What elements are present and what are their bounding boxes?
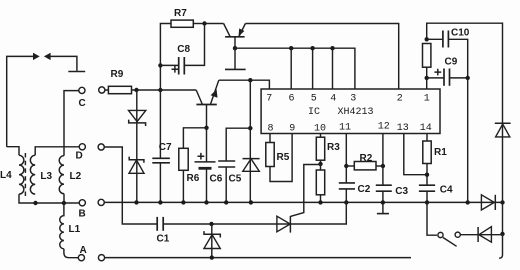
terminal B left [79, 200, 85, 206]
svg-text:C5: C5 [229, 174, 242, 185]
svg-text:L3: L3 [40, 171, 52, 182]
wire C terminal down to L2 [64, 91, 79, 156]
diode D5 on bus [481, 195, 495, 210]
bottom bus [105, 257, 411, 259]
wire L3 top to D line [35, 147, 79, 156]
junction bus C5 [224, 200, 228, 204]
terminal D right [98, 144, 104, 150]
plus sign C6 [198, 153, 205, 160]
svg-text:L1: L1 [69, 224, 81, 235]
svg-text:14: 14 [420, 123, 432, 134]
svg-text:13: 13 [397, 123, 409, 134]
capacitor C2 [339, 183, 355, 203]
wire pin8 stub [269, 134, 271, 143]
zener ZD1 [129, 110, 146, 126]
junction pin4 rail [330, 46, 334, 50]
wire diode D3 column [249, 128, 251, 202]
wire pin13 elbow [404, 134, 427, 175]
wire emitter node to C5 and diode [249, 80, 251, 128]
svg-text:D: D [76, 151, 83, 162]
svg-text:C4: C4 [440, 185, 453, 196]
junction bottom bus zener [210, 255, 214, 259]
wire L1 bottom to A [64, 249, 78, 258]
junction pin5 rail [310, 46, 314, 50]
svg-text:R2: R2 [360, 153, 373, 164]
wire R5 bottom to pin9 [270, 134, 292, 182]
spark gap arrow right [44, 53, 51, 60]
svg-text:C1: C1 [157, 234, 170, 245]
junction bus R6 [181, 200, 185, 204]
electrode bar [225, 68, 246, 70]
diode D6 [478, 227, 491, 243]
resistor R7 [171, 20, 193, 27]
svg-text:6: 6 [289, 94, 295, 105]
junction bus C9 column [466, 200, 470, 204]
junction Q2 collector node [204, 126, 208, 130]
wire Q1 emitter rail to pin2 [245, 24, 398, 90]
resistor R2 [354, 162, 376, 170]
junction R3 bottom [318, 162, 322, 166]
svg-text:C: C [79, 98, 86, 109]
terminal A right [98, 255, 104, 261]
terminal C right [99, 87, 105, 93]
wire C4 node to switch [427, 202, 437, 235]
wire C7 column [159, 90, 161, 158]
junction bus zener [134, 200, 138, 204]
svg-text:L4: L4 [0, 170, 12, 181]
transistor Q1 [205, 24, 246, 49]
resistor R8 [423, 44, 431, 68]
wire R7 to node [193, 23, 204, 25]
svg-text:B: B [79, 209, 86, 220]
wire R6 to bus [182, 170, 184, 202]
junction C9 right [466, 76, 470, 80]
wire C9 right to bus [467, 78, 469, 202]
capacitor C5 [218, 161, 235, 202]
junction C5 node [248, 126, 252, 130]
svg-text:C8: C8 [177, 44, 190, 55]
capacitor C1 [157, 217, 290, 231]
diode D4 right column [495, 119, 511, 202]
wire switch to D6 [460, 234, 502, 236]
inductor L3 [30, 155, 35, 194]
svg-text:R7: R7 [174, 8, 187, 19]
wire pin6 stub [290, 48, 292, 89]
svg-text:C10: C10 [451, 28, 470, 39]
junction Q2 emitter node [248, 78, 252, 82]
svg-text:C6: C6 [210, 174, 223, 185]
wire D terminal to C1 [105, 147, 158, 224]
resistor R1 [423, 141, 431, 164]
svg-text:C2: C2 [358, 184, 371, 195]
bus mid horizontal [105, 201, 503, 203]
svg-text:R9: R9 [111, 69, 124, 80]
wire R7 branch riser [160, 24, 171, 91]
transformer core [24, 153, 26, 196]
wire top-left antenna loop [7, 56, 77, 146]
plus sign C9 [434, 69, 441, 76]
junction L3 bottom [33, 201, 37, 205]
terminal A left [78, 255, 84, 261]
wire zener column [136, 90, 138, 202]
svg-text:R6: R6 [187, 173, 200, 184]
wire pin1 stub [426, 78, 428, 89]
capacitor C6 [195, 162, 216, 203]
zener ZD2 [129, 157, 144, 174]
wire R9 to Q2 base [132, 89, 197, 91]
spark gap arrow left [33, 53, 40, 60]
capacitor C4 [419, 185, 435, 202]
wire right column lower [502, 202, 504, 234]
junction R9-zener [134, 88, 138, 92]
zener ZD3 [204, 224, 220, 258]
wire rail y48 to pin3 [235, 48, 355, 89]
inductor L2 [59, 156, 64, 194]
wire R3 to R4 [320, 160, 322, 170]
svg-text:10: 10 [314, 124, 326, 135]
plus sign C8 [172, 66, 179, 73]
wire pin14 stub [426, 134, 428, 142]
svg-text:R3: R3 [327, 142, 340, 153]
wire collector to R6 [183, 128, 206, 149]
switch K [438, 232, 460, 246]
terminal D left [79, 144, 85, 150]
svg-text:7: 7 [266, 94, 272, 105]
svg-text:3: 3 [350, 94, 356, 105]
wire right column tail [499, 234, 503, 258]
wire R1 to C4 [426, 164, 428, 186]
junction bus C3 [381, 200, 385, 204]
inductor L1 [60, 203, 64, 249]
junction bus C2 [344, 200, 348, 204]
junction right column switch row [500, 232, 504, 236]
wire to L4 top [7, 147, 19, 156]
junction bus R4 [318, 200, 322, 204]
capacitor C8 [160, 24, 204, 75]
junction R2 right [381, 164, 385, 168]
wire pin10 stub [320, 134, 322, 138]
junction Q1 base [233, 46, 237, 50]
wire pin12 stub [382, 134, 384, 186]
svg-text:1: 1 [424, 94, 430, 105]
svg-text:L2: L2 [70, 171, 82, 182]
svg-text:XH4213: XH4213 [338, 107, 374, 118]
junction R7 right [202, 21, 206, 25]
svg-text:R1: R1 [434, 147, 447, 158]
svg-text:A: A [80, 245, 87, 256]
junction bus C4 [425, 200, 429, 204]
ground under C3 [377, 202, 389, 213]
wire R4 to bus [320, 195, 322, 203]
IC U1 XH4213 [261, 89, 440, 134]
junction bus D3 [249, 200, 253, 204]
wire L2 bottom [63, 194, 65, 203]
capacitor C7 [152, 158, 170, 202]
junction C1 zener [209, 222, 213, 226]
terminal B right [98, 199, 104, 205]
junction L2 bottom [62, 201, 66, 205]
junction R2 left [344, 164, 348, 168]
capacitor C9 [427, 69, 468, 86]
wire pin5 stub [312, 48, 314, 89]
wire L4 L3 L2 bottoms to B [19, 194, 79, 203]
svg-text:9: 9 [289, 124, 295, 135]
wire R8 to C9 node [426, 67, 428, 78]
junction R1 bottom [425, 173, 429, 177]
svg-text:IC: IC [308, 107, 320, 118]
diode D3 [243, 159, 260, 172]
capacitor C3 [376, 185, 392, 202]
junction bus right column [500, 200, 504, 204]
junction C9 left [425, 76, 429, 80]
svg-text:12: 12 [378, 122, 390, 133]
svg-text:4: 4 [330, 94, 336, 105]
wire C6 column [206, 128, 208, 162]
svg-text:2: 2 [397, 94, 403, 105]
svg-text:R5: R5 [277, 152, 290, 163]
svg-text:C9: C9 [445, 57, 458, 68]
junction C8 left [158, 63, 162, 67]
wire top right rail [427, 23, 503, 119]
wire Q2 emitter to pin7 [219, 80, 270, 89]
wire R2 leads [346, 165, 354, 167]
junction bus C7 [158, 200, 162, 204]
resistor R3 [316, 137, 324, 160]
junction R9-C7 node [158, 88, 162, 92]
resistor R4 [316, 170, 324, 195]
transistor Q2 [196, 80, 219, 128]
wire pin11 stub [345, 134, 347, 183]
junction bus C6 [204, 200, 208, 204]
junction pin6 rail [289, 46, 293, 50]
junction C10 left [425, 37, 429, 41]
svg-text:8: 8 [268, 124, 274, 135]
inductor L4 [19, 155, 24, 194]
thyristor VS [277, 165, 346, 233]
antenna electrode bar [68, 71, 85, 73]
svg-text:11: 11 [339, 123, 351, 134]
resistor R5 [266, 143, 274, 167]
svg-text:5: 5 [311, 94, 317, 105]
wire electrode stub [234, 48, 236, 69]
wire R9 input [105, 89, 108, 91]
wire pin4 stub [332, 48, 334, 89]
svg-text:C7: C7 [159, 142, 172, 153]
terminal C left [79, 87, 85, 93]
capacitor C10 [427, 31, 468, 78]
resistor R6 [179, 148, 188, 170]
svg-text:C3: C3 [395, 186, 408, 197]
resistor R9 [108, 86, 131, 93]
wire to C5 [226, 128, 250, 161]
